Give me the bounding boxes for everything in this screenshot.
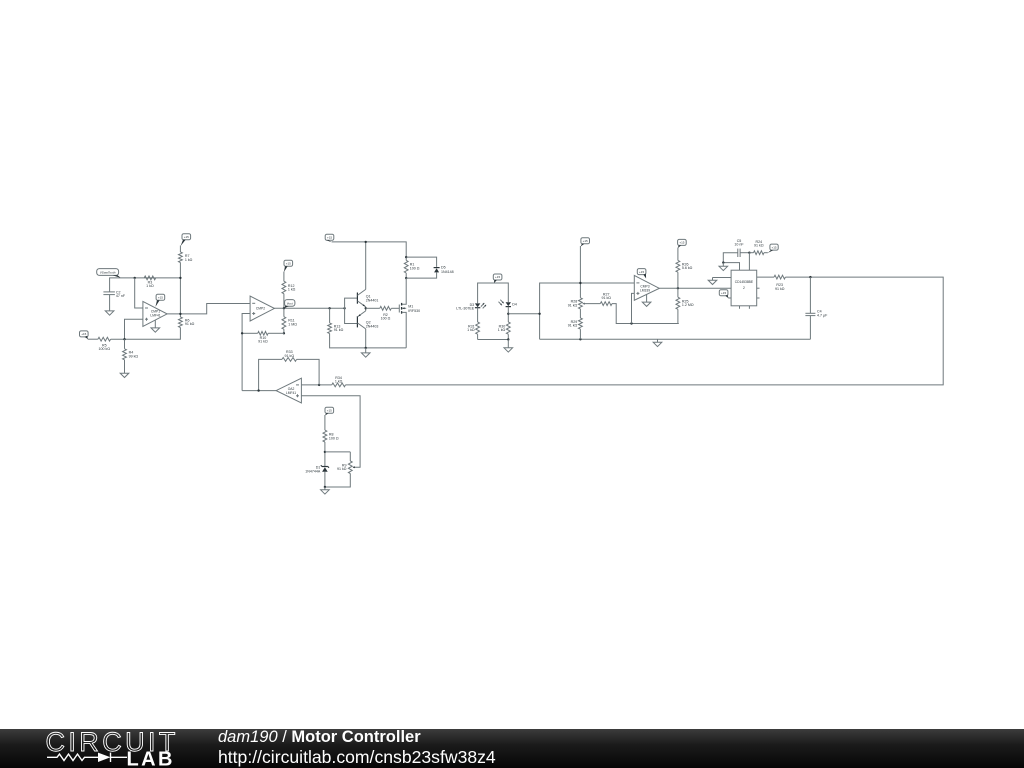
wire LED bottom rail (478, 339, 509, 341)
ground (653, 339, 662, 346)
svg-text:D4: D4 (512, 303, 517, 307)
node Vout (283, 307, 285, 309)
resistor R34 (332, 376, 346, 387)
net flag VSawTooth (97, 269, 121, 278)
junction (677, 287, 679, 289)
junction (257, 389, 259, 391)
ground (642, 302, 651, 306)
wire R27 to plus node (612, 304, 679, 324)
resistor R24 (754, 240, 765, 255)
svg-text:100 Ω: 100 Ω (381, 317, 391, 321)
node node A (179, 277, 181, 279)
ground (321, 487, 330, 494)
junction (579, 338, 581, 340)
wire R34 to OA2 minus (301, 384, 331, 386)
svg-text:2N4403: 2N4403 (366, 324, 379, 328)
svg-text:91 kΩ: 91 kΩ (185, 322, 195, 326)
svg-text:CMP2: CMP2 (256, 307, 265, 311)
wire R1 leads (405, 257, 407, 260)
ground (708, 278, 717, 285)
wire to R4 (124, 339, 126, 349)
svg-text:1N4148: 1N4148 (441, 270, 454, 274)
wire R11 leads (283, 308, 285, 316)
wire D1 to ground (324, 472, 326, 487)
svg-text:1 kΩ: 1 kΩ (146, 284, 154, 288)
wire CMP3 ground pin (646, 294, 648, 302)
op-amp CMP3 LM339 (634, 275, 659, 300)
resistor R23 (774, 275, 785, 291)
svg-text:91 kΩ: 91 kΩ (258, 340, 268, 344)
ground (504, 340, 513, 353)
power flag +15 (LED rail) (493, 274, 502, 283)
wire C5 to R24 node (740, 252, 749, 254)
wire C5 loop (723, 253, 739, 271)
wire C2 to ground (109, 295, 111, 311)
power flag +15 (CMP3) (637, 269, 646, 279)
wire R28-R29 (579, 309, 581, 318)
junction (328, 307, 330, 309)
svg-text:+15: +15 (495, 275, 500, 279)
wire D3 to R31 (477, 308, 479, 322)
ground (151, 328, 160, 332)
wire R9 bottom (325, 474, 350, 488)
power flag +15 (R26) (678, 239, 687, 248)
wire D4 to sense node (507, 307, 509, 322)
wire +15 to R8 (324, 415, 326, 430)
junction (343, 307, 345, 309)
resistor R4 (123, 349, 139, 360)
power flag +15 (IC) (719, 290, 728, 298)
junction (179, 313, 181, 315)
IC U1 CD14538BE (731, 270, 757, 306)
svg-text:LTL-307EE: LTL-307EE (456, 307, 475, 311)
capacitor C5 (734, 239, 744, 257)
junction (134, 277, 136, 279)
resistor R30 (498, 322, 510, 334)
wire LED top rail (478, 283, 509, 303)
resistor R29 (568, 318, 583, 329)
junction (748, 252, 750, 254)
wire plus input riser (632, 293, 635, 323)
wire CMP3 output (659, 287, 731, 289)
svg-text:CD14538BE: CD14538BE (735, 280, 754, 284)
wire R25 to plus node (677, 309, 679, 323)
svg-text:1N4744A: 1N4744A (305, 469, 321, 473)
svg-text:1 kΩ: 1 kΩ (335, 380, 343, 384)
junction (809, 276, 811, 278)
ground (105, 311, 114, 315)
junction (123, 338, 125, 340)
wire source to ground rail (402, 312, 406, 348)
resistor R12 (282, 281, 296, 293)
svg-text:1 kΩ: 1 kΩ (498, 328, 506, 332)
wire node to IC pin (748, 253, 750, 271)
diode D1 1N4744A zener (305, 465, 329, 473)
svg-text:LMF41: LMF41 (150, 314, 160, 318)
resistor R11 (282, 317, 297, 330)
junction (241, 332, 243, 334)
wire (179, 246, 181, 253)
junction (405, 256, 407, 258)
svg-text:10 nF: 10 nF (734, 243, 744, 247)
svg-text:2: 2 (743, 286, 745, 290)
capacitor C4 (805, 310, 828, 318)
svg-text:LMF41: LMF41 (286, 391, 296, 395)
power flag +15 (top rail) (325, 234, 334, 242)
op-amp CMP2 (250, 296, 274, 321)
svg-text:2N4401: 2N4401 (366, 298, 379, 302)
potentiometer R9 wiper (353, 466, 355, 468)
resistor R3 (144, 276, 156, 288)
logo resistor-diode line (47, 753, 127, 762)
wire CMP2 plus input from OA2 (242, 314, 250, 391)
wire R10 row (242, 332, 258, 334)
wire OA2 plus input (301, 396, 360, 467)
wire CMP1 output to CMP2 (167, 304, 250, 314)
wire bottom ground rail (330, 334, 407, 348)
wire R24 lead (749, 252, 753, 254)
wire D5 branch (406, 257, 436, 267)
wire R12 to Vout node (283, 294, 285, 309)
wire R7 to node A (179, 263, 181, 278)
wire R33 feedback loop (297, 359, 320, 385)
wire ground rail (540, 338, 811, 340)
diode D5 1N4148 (434, 266, 454, 274)
wire +15 top rail (332, 242, 407, 257)
op-amp OA2 LMF41 (mirrored) (276, 378, 301, 403)
junction (630, 322, 632, 324)
ground (120, 373, 129, 377)
svg-text:91 kΩ: 91 kΩ (568, 324, 578, 328)
svg-text:+15: +15 (679, 241, 684, 245)
svg-text:47 nF: 47 nF (116, 294, 126, 298)
wire R8 to ref node (324, 442, 326, 466)
wire to C4 (809, 277, 811, 313)
svg-text:91 kΩ: 91 kΩ (334, 328, 344, 332)
svg-text:+15: +15 (639, 270, 644, 274)
node sense (507, 313, 509, 315)
resistor R13 (328, 323, 344, 334)
svg-text:+15: +15 (158, 296, 163, 300)
svg-text:+15: +15 (721, 291, 726, 295)
power flag +15 (R8) (325, 407, 334, 415)
wire R6 to bottom rail (111, 328, 181, 340)
wire (268, 332, 284, 334)
wire R4 to ground (124, 360, 126, 373)
svg-text:91 kΩ: 91 kΩ (337, 467, 347, 471)
wire comparator left loop (540, 283, 635, 339)
junction (538, 313, 540, 315)
resistor R1 (404, 260, 419, 273)
junction (324, 451, 326, 453)
wire output to R25 (677, 288, 679, 297)
ground (719, 263, 728, 271)
svg-text:1 kΩ: 1 kΩ (467, 328, 475, 332)
svg-text:VSawTooth: VSawTooth (100, 270, 116, 274)
wire R33 to output (259, 359, 282, 390)
transistor Q2 2N4403 (357, 311, 378, 329)
junction (365, 307, 367, 309)
potentiometer R28 (568, 298, 585, 309)
diode D4 photodiode (499, 300, 517, 307)
power flag +15 (divider) (581, 238, 590, 247)
wire to CMP1 non-inverting input (125, 319, 143, 339)
pin stub (757, 297, 760, 299)
capacitor C2 (103, 290, 125, 298)
svg-text:Vout: Vout (287, 302, 293, 306)
diode D3 LTL-307EE (LED) (456, 303, 486, 311)
svg-text:100 Ω: 100 Ω (329, 436, 339, 440)
svg-text:1 kΩ: 1 kΩ (288, 288, 296, 292)
junction (722, 261, 724, 263)
resistor R27 (600, 292, 612, 305)
junction (579, 282, 581, 284)
ground (361, 348, 370, 357)
svg-text:+15: +15 (327, 409, 332, 413)
power flag +15 (R7 top) (181, 234, 191, 246)
junction (507, 338, 509, 340)
resistor R2 (380, 306, 392, 320)
wire sense to comparator box (508, 313, 539, 315)
wire pin to ground (713, 277, 732, 279)
svg-text:91 kΩ: 91 kΩ (285, 354, 295, 358)
svg-text:5.6 kΩ: 5.6 kΩ (682, 266, 693, 270)
resistor R26 (676, 260, 693, 272)
svg-text:91 kΩ: 91 kΩ (775, 287, 785, 291)
wire long feedback loop (346, 277, 944, 385)
wire gate (391, 307, 399, 309)
power flag +15 (R5) (80, 331, 89, 339)
wire ref node to R9 (325, 451, 350, 453)
wire base bar (345, 298, 358, 323)
wire OA2 output (242, 390, 276, 392)
wire R31 to rail (477, 334, 479, 339)
svg-text:+15: +15 (184, 235, 189, 239)
svg-text:91 kΩ: 91 kΩ (601, 296, 611, 300)
CircuitLab logo (0, 729, 520, 768)
wire R29 to rail (579, 329, 581, 339)
op-amp CMP1 (143, 301, 167, 326)
potentiometer R9 (337, 461, 352, 474)
resistor R33 (282, 350, 297, 361)
junction (324, 486, 326, 488)
wire pin stub (flag) (728, 297, 731, 299)
wire +15 to divider (579, 246, 581, 298)
resistor R7 (179, 252, 193, 263)
svg-text:IRF530: IRF530 (408, 309, 420, 313)
junction (365, 347, 367, 349)
svg-text:LM339: LM339 (640, 289, 650, 293)
wire node A down to R6 (179, 278, 181, 317)
junction (318, 384, 320, 386)
mosfet M1 IRF530 (399, 303, 420, 314)
wire R26 to output (677, 272, 679, 288)
junction (283, 332, 285, 334)
wire to CMP1 inverting input (135, 278, 143, 308)
wire (88, 338, 98, 340)
svg-text:+15: +15 (286, 261, 291, 265)
wire drain (402, 278, 406, 304)
wire VSawTooth node (110, 278, 181, 292)
svg-text:1 kΩ: 1 kΩ (185, 258, 193, 262)
svg-text:1 MΩ: 1 MΩ (288, 322, 297, 326)
pin stub (739, 306, 741, 309)
wire Q2 collector to ground rail (365, 329, 367, 348)
svg-text:100 Ω: 100 Ω (410, 266, 420, 270)
power flag +15 (R12 top) (284, 260, 293, 272)
svg-text:100 kΩ: 100 kΩ (99, 347, 111, 351)
wire emitter node to R2 (366, 307, 380, 309)
junction (405, 277, 407, 279)
junction (365, 241, 367, 243)
svg-text:91 kΩ: 91 kΩ (568, 303, 578, 307)
net flag Vout (284, 300, 295, 309)
svg-text:+15: +15 (583, 239, 588, 243)
resistor R6 (179, 317, 195, 328)
pin stub (757, 287, 760, 289)
power flag +15 (CMP1) (155, 294, 164, 307)
svg-text:+15: +15 (327, 235, 332, 239)
power flag +15 (R24) (768, 244, 779, 253)
wire D5 to drain node (406, 272, 436, 278)
svg-text:+15: +15 (81, 332, 86, 336)
wire C4 to rail (809, 316, 811, 340)
svg-text:1.2 MΩ: 1.2 MΩ (682, 303, 694, 307)
resistor R8 (323, 430, 339, 442)
wire R13 branch (329, 308, 331, 323)
svg-text:99 kΩ: 99 kΩ (129, 355, 139, 359)
svg-text:4.7 µF: 4.7 µF (817, 313, 828, 317)
wire CMP2 output bus (274, 307, 344, 309)
resistor R5 (98, 337, 111, 351)
transistor Q1 2N4401 (357, 289, 378, 306)
wire (283, 272, 285, 282)
pin stub (748, 306, 750, 309)
wire +15 to R26 (677, 248, 679, 261)
wire emitters node (365, 307, 367, 311)
wire Q1 collector to +15 rail (365, 242, 367, 290)
wire wiper to R27 (583, 303, 601, 305)
resistor R10 (258, 331, 268, 343)
svg-text:+15: +15 (771, 245, 776, 249)
wire CMP1 ground pin (154, 320, 156, 328)
resistor R25 (676, 297, 694, 309)
wire IC output (757, 276, 774, 278)
svg-text:91 kΩ: 91 kΩ (754, 244, 764, 248)
resistor R31 (467, 322, 479, 334)
